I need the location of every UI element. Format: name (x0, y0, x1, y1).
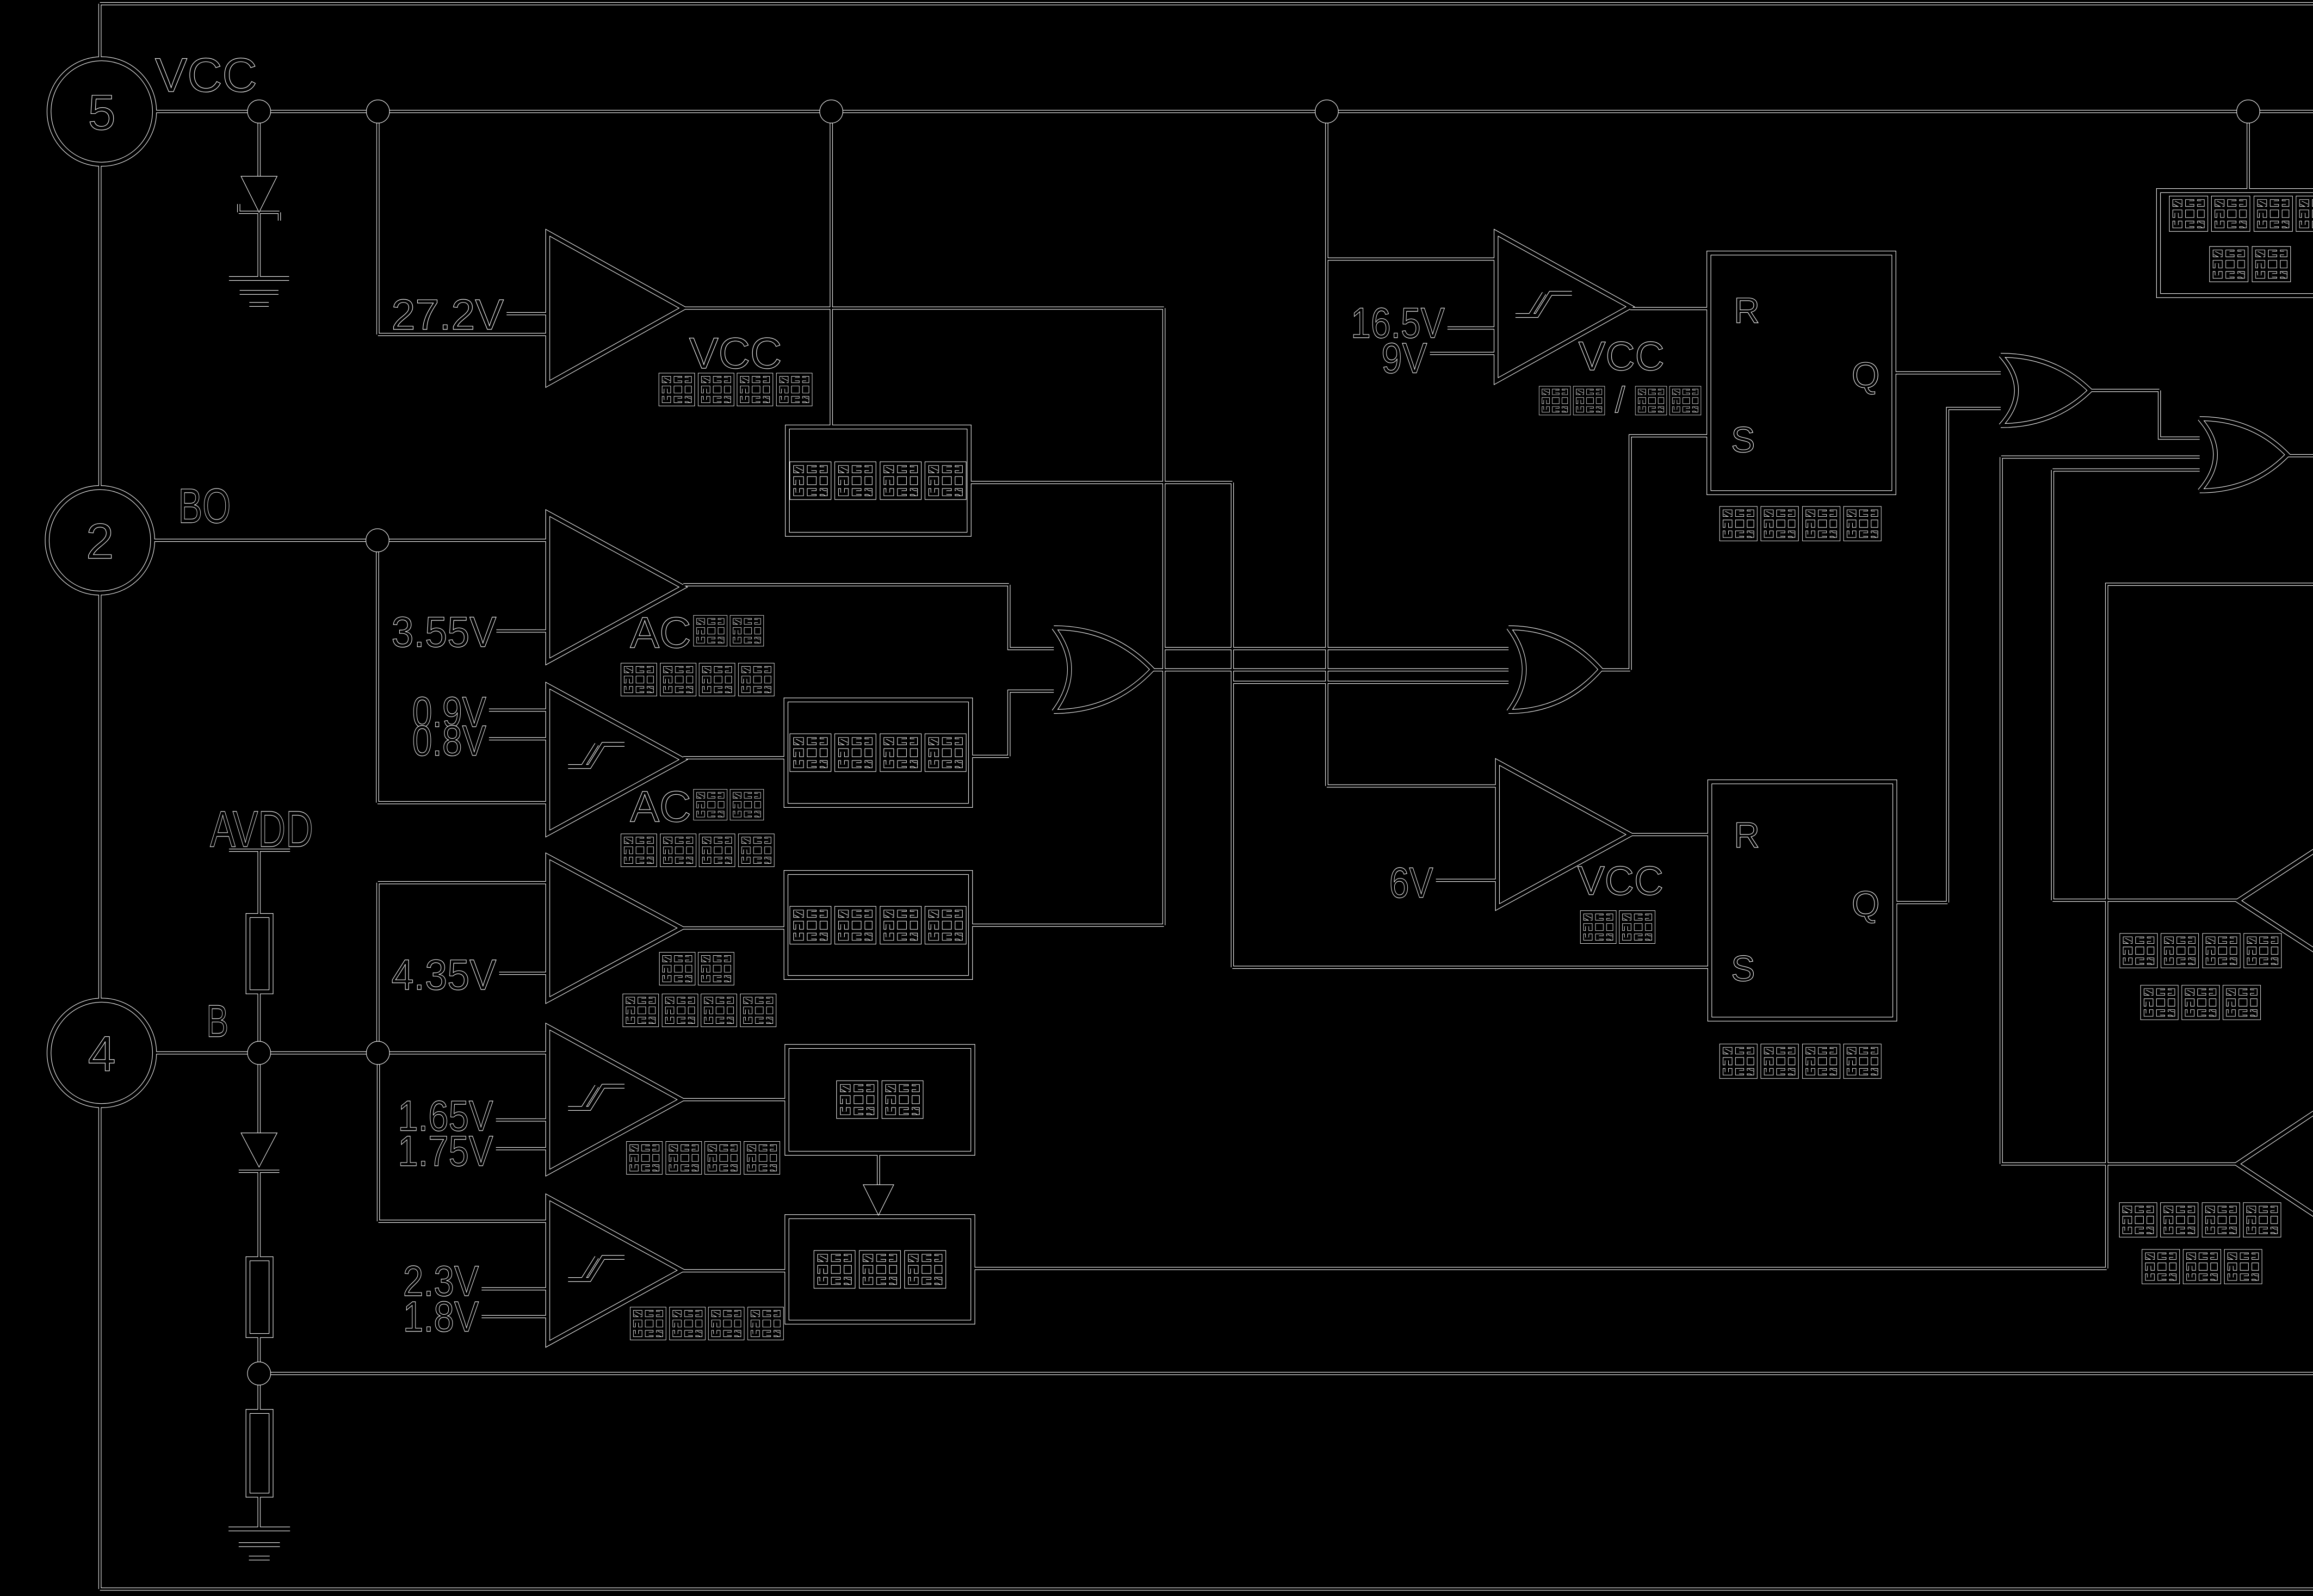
svg-text:S: S (1731, 948, 1755, 989)
svg-text:AC: AC (630, 782, 691, 831)
svg-text:VCC: VCC (689, 329, 782, 378)
svg-text:VCC: VCC (1577, 858, 1664, 903)
svg-text:R: R (1734, 290, 1760, 331)
svg-text:AVDD: AVDD (210, 801, 313, 858)
svg-text:1.8V: 1.8V (403, 1293, 479, 1341)
junction VCC zener (247, 100, 271, 123)
svg-text:1.75V: 1.75V (398, 1127, 493, 1175)
svg-text:5: 5 (88, 84, 116, 140)
junction VCC otp (820, 100, 843, 123)
svg-text:Q: Q (1852, 355, 1880, 396)
svg-text:9V: 9V (1381, 334, 1427, 382)
svg-text:BO: BO (178, 479, 231, 533)
junction VCC ovp (366, 100, 390, 123)
junction divider node (247, 1362, 271, 1385)
junction VCC onoff (1315, 100, 1338, 123)
svg-text:6V: 6V (1389, 859, 1433, 907)
svg-text:4: 4 (88, 1026, 116, 1082)
junction FB divider (247, 1041, 271, 1064)
svg-text:3.55V: 3.55V (391, 608, 496, 656)
svg-text:27.2V: 27.2V (391, 291, 504, 339)
svg-text:VCC: VCC (1578, 333, 1664, 379)
svg-text:VCC: VCC (155, 49, 257, 102)
svg-text:B: B (206, 996, 229, 1046)
junction VCC ldo (2237, 100, 2260, 123)
arrow jitter-osc (863, 1185, 894, 1215)
svg-text:S: S (1731, 419, 1755, 460)
svg-text:2: 2 (86, 513, 114, 569)
junction FB comp (366, 1041, 390, 1064)
svg-text:R: R (1734, 815, 1760, 855)
svg-text:Q: Q (1852, 884, 1880, 924)
svg-text:4.35V: 4.35V (391, 951, 496, 999)
svg-text:0.8V: 0.8V (412, 717, 486, 765)
diode D2 (241, 1133, 277, 1167)
zener diode D1 (241, 176, 277, 212)
svg-text:AC: AC (630, 608, 691, 657)
svg-text:/: / (1615, 379, 1625, 420)
junction BO (366, 529, 389, 552)
